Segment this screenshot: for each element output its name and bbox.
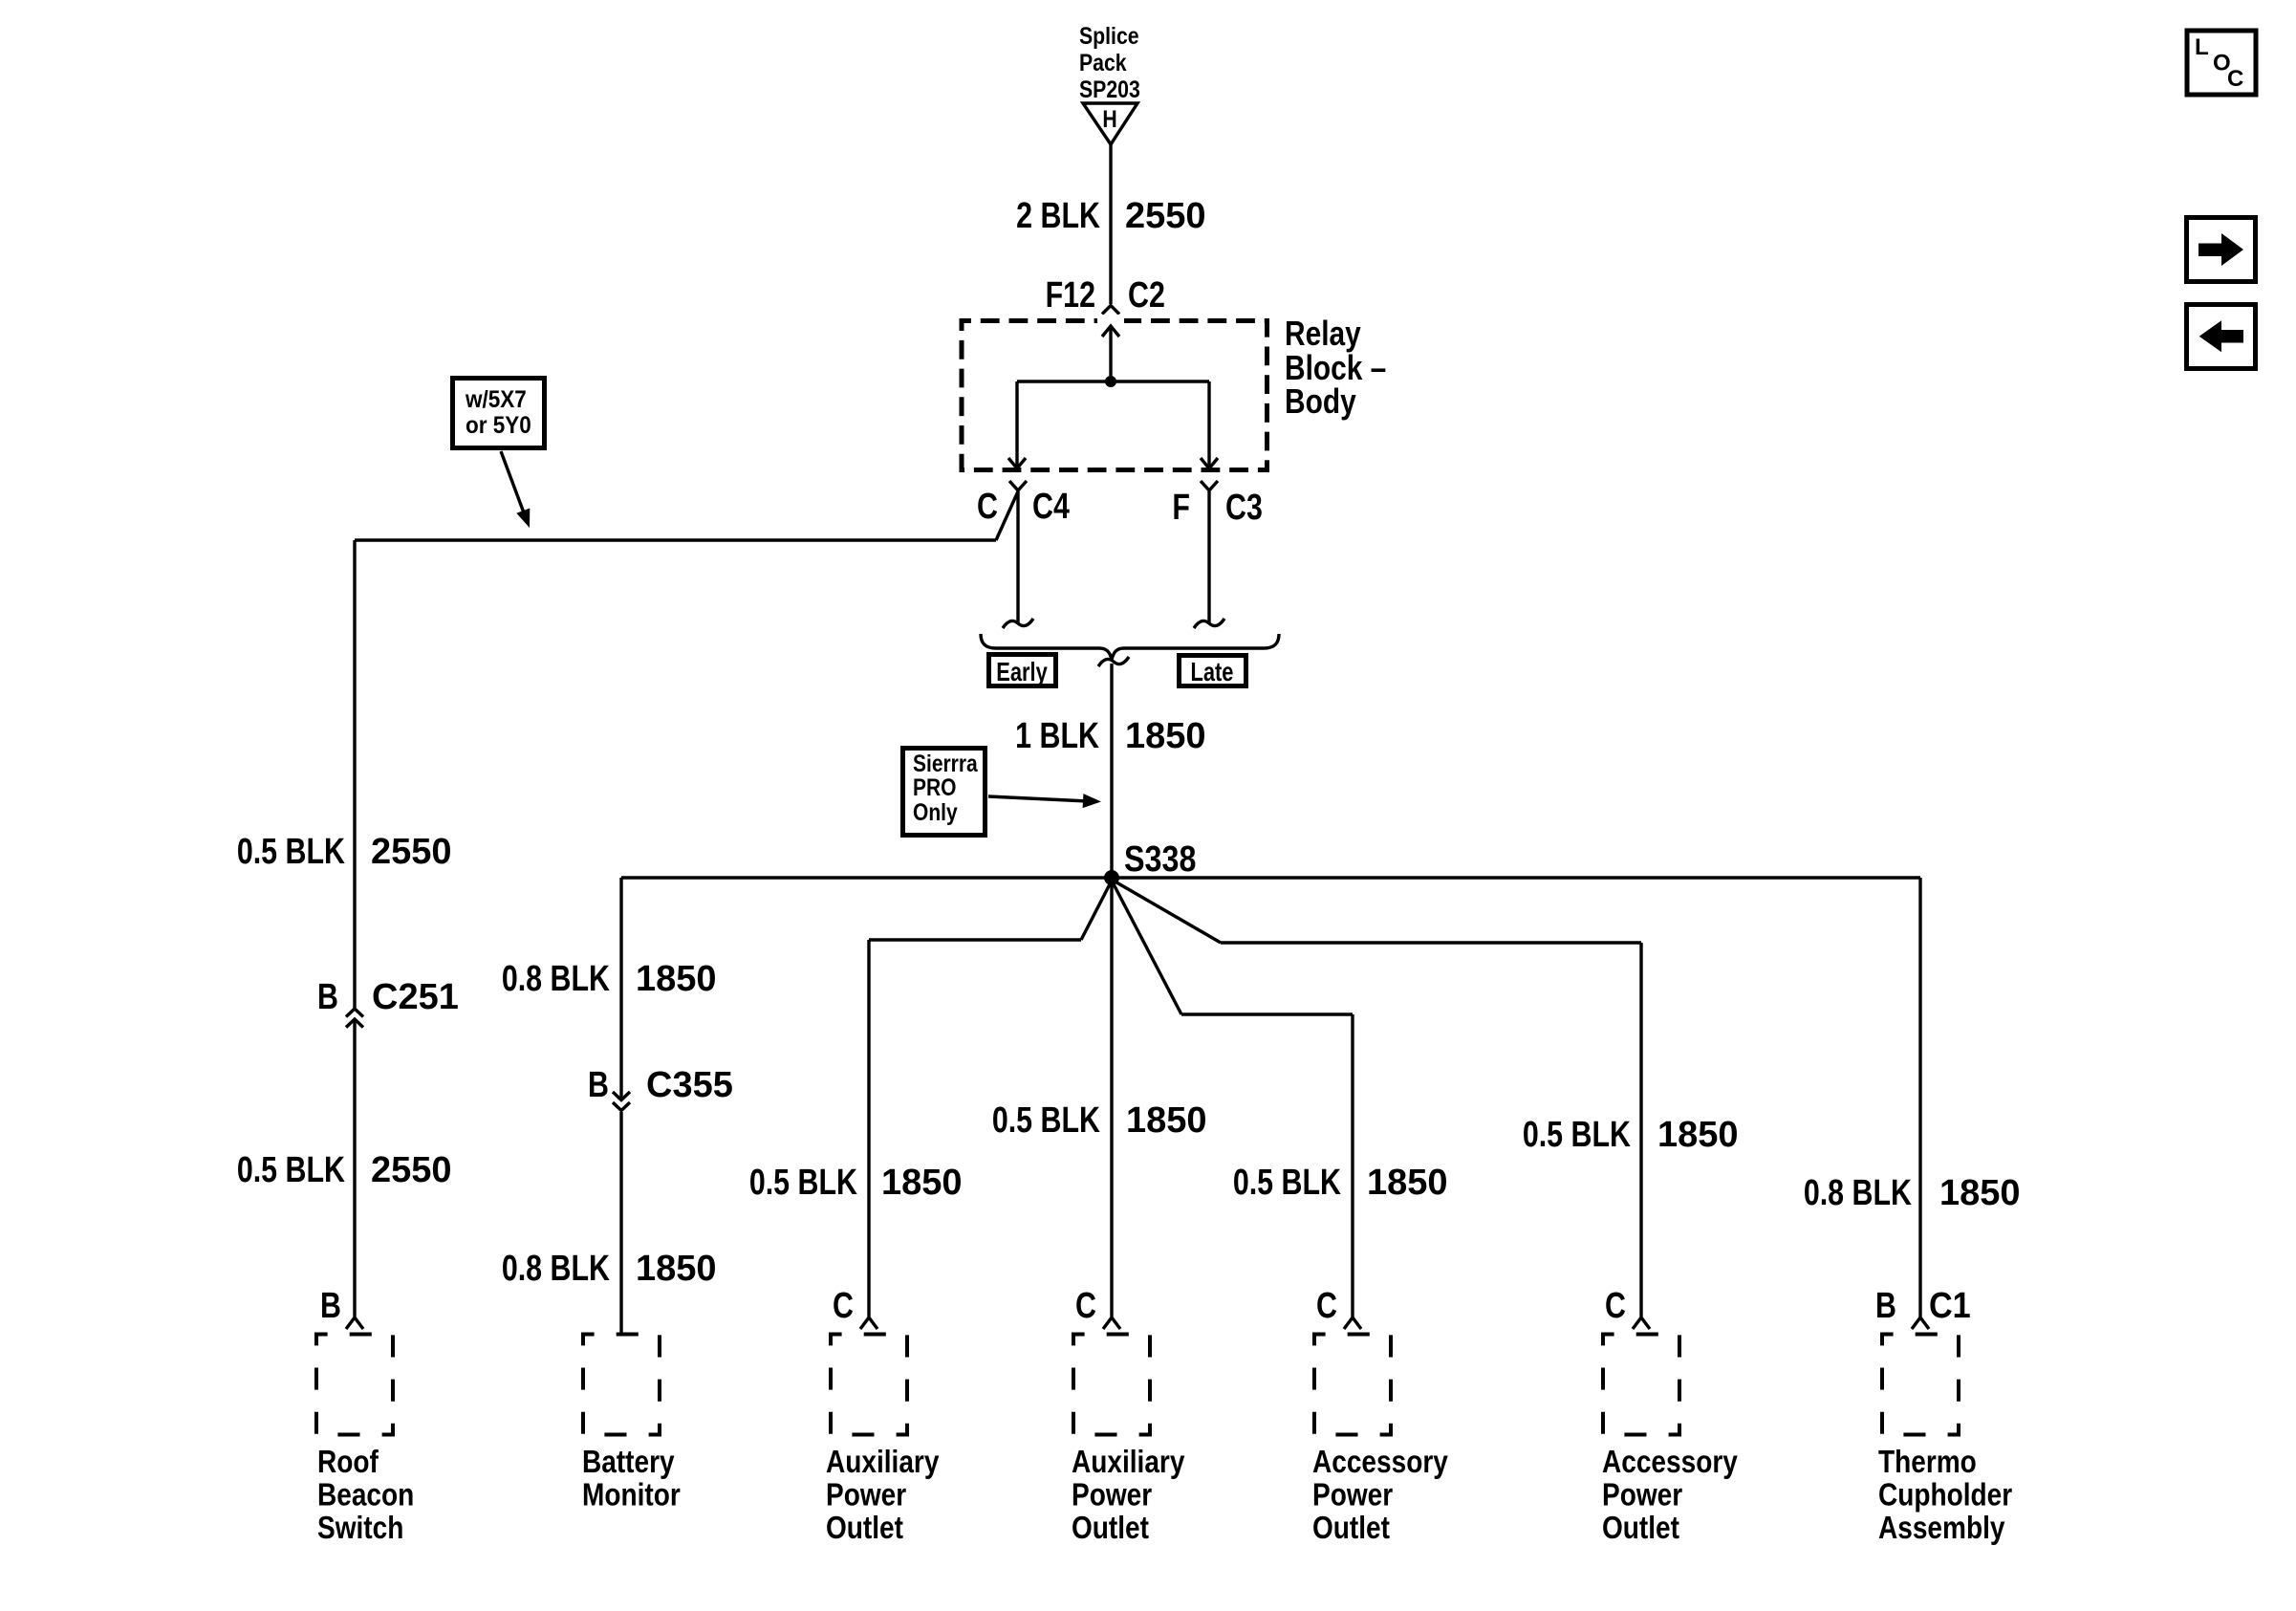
wire relay internal horizontal <box>1017 380 1209 382</box>
svg-text:0.8 BLK: 0.8 BLK <box>1804 1173 1912 1213</box>
svg-text:Power: Power <box>826 1477 906 1513</box>
svg-text:0.5 BLK: 0.5 BLK <box>1523 1115 1631 1155</box>
arrow from Sierrra box <box>988 794 1101 808</box>
auxiliary power outlet 2 label <box>1072 1445 1184 1546</box>
svg-text:2550: 2550 <box>371 832 452 872</box>
connector B roof beacon <box>320 1286 363 1329</box>
auxiliary power outlet 1 label <box>826 1445 939 1546</box>
break symbol below brace <box>1098 657 1129 666</box>
svg-text:Relay: Relay <box>1285 315 1361 353</box>
svg-text:C: C <box>2227 66 2243 92</box>
svg-text:w/5X7: w/5X7 <box>465 386 527 413</box>
svg-text:Body: Body <box>1285 382 1356 421</box>
svg-text:1850: 1850 <box>1367 1163 1448 1203</box>
connector C aux1 <box>833 1286 877 1329</box>
svg-text:2550: 2550 <box>371 1150 452 1190</box>
accessory power outlet 2 label <box>1602 1445 1738 1546</box>
label 2 BLK 2550 <box>1016 196 1205 236</box>
label 0.8 BLK 1850 upper <box>502 959 717 999</box>
svg-text:1850: 1850 <box>1126 1100 1207 1141</box>
svg-text:Only: Only <box>913 798 958 825</box>
battery monitor label <box>582 1445 681 1513</box>
svg-text:C4: C4 <box>1032 487 1070 527</box>
wire battery branch upper 0.8 BLK 1850 <box>619 878 622 1098</box>
svg-text:C1: C1 <box>1929 1284 1971 1325</box>
svg-text:B: B <box>1875 1286 1896 1326</box>
svg-text:Thermo: Thermo <box>1878 1445 1977 1480</box>
svg-text:C355: C355 <box>646 1065 733 1105</box>
svg-text:1850: 1850 <box>636 959 717 999</box>
svg-text:1850: 1850 <box>1939 1173 2021 1213</box>
connector C acc1 <box>1316 1286 1361 1329</box>
roof beacon switch box <box>316 1335 393 1435</box>
svg-text:Outlet: Outlet <box>1602 1511 1679 1546</box>
svg-text:0.5 BLK: 0.5 BLK <box>749 1163 857 1203</box>
svg-text:0.5 BLK: 0.5 BLK <box>237 1150 345 1190</box>
svg-text:C: C <box>833 1286 854 1326</box>
Early box <box>989 655 1056 687</box>
svg-text:Outlet: Outlet <box>826 1511 903 1546</box>
wire aux power outlet 1 branch <box>869 881 1112 1317</box>
svg-text:H: H <box>1102 105 1116 132</box>
relay block body dashed box <box>962 315 1267 470</box>
svg-text:Battery: Battery <box>582 1445 675 1480</box>
label 0.5 BLK 1850 acc1 <box>1233 1163 1448 1203</box>
splice S338 junction <box>1104 870 1119 885</box>
wire to roof beacon branch (horizontal + diagonal) <box>355 491 1018 540</box>
svg-text:0.5 BLK: 0.5 BLK <box>237 832 345 872</box>
label 0.5 BLK 1850 acc2 <box>1523 1115 1739 1155</box>
svg-text:C: C <box>977 487 998 527</box>
wire trunk 1 BLK 1850 <box>1110 664 1113 878</box>
arrow right icon <box>2187 218 2256 282</box>
svg-text:L: L <box>2195 34 2209 60</box>
svg-text:Early: Early <box>996 657 1047 686</box>
svg-text:1850: 1850 <box>636 1249 717 1289</box>
svg-text:2 BLK: 2 BLK <box>1016 196 1100 236</box>
svg-text:Switch: Switch <box>317 1511 403 1546</box>
connector C355 pin B <box>588 1065 733 1111</box>
svg-text:Power: Power <box>1312 1477 1393 1513</box>
svg-text:0.5 BLK: 0.5 BLK <box>992 1100 1100 1141</box>
svg-text:1850: 1850 <box>881 1163 963 1203</box>
svg-text:1 BLK: 1 BLK <box>1015 716 1099 756</box>
label 1 BLK 1850 <box>1015 716 1205 756</box>
wire roof beacon upper 0.5 BLK 2550 <box>353 540 356 1008</box>
wire aux power outlet 2 (trunk lower) <box>1110 878 1113 1317</box>
wire accessory power outlet 1 branch <box>1112 881 1353 1317</box>
svg-text:S338: S338 <box>1124 839 1196 880</box>
svg-text:0.8 BLK: 0.8 BLK <box>502 959 610 999</box>
accessory power outlet 2 box <box>1603 1335 1679 1435</box>
wire battery branch lower 0.8 BLK 1850 <box>619 1112 622 1334</box>
svg-text:C2: C2 <box>1128 275 1165 316</box>
label 0.5 BLK 1850 aux1 <box>749 1163 963 1203</box>
svg-text:Power: Power <box>1602 1477 1682 1513</box>
svg-text:C: C <box>1605 1286 1626 1326</box>
svg-text:Outlet: Outlet <box>1312 1511 1390 1546</box>
svg-text:Pack: Pack <box>1079 49 1127 76</box>
svg-text:Splice: Splice <box>1079 22 1139 49</box>
thermo cupholder assembly label <box>1878 1445 2012 1546</box>
wire main S338 horizontal <box>621 876 1920 879</box>
svg-text:0.5 BLK: 0.5 BLK <box>1233 1163 1341 1203</box>
svg-text:Accessory: Accessory <box>1602 1445 1738 1480</box>
svg-text:1850: 1850 <box>1125 716 1206 756</box>
label 0.5 BLK 1850 aux2 <box>992 1100 1207 1141</box>
svg-text:Outlet: Outlet <box>1072 1511 1149 1546</box>
svg-text:Sierrra: Sierrra <box>913 750 978 776</box>
svg-text:1850: 1850 <box>1657 1115 1739 1155</box>
svg-text:SP203: SP203 <box>1079 76 1140 102</box>
wire into relay with up arrow <box>1102 326 1119 381</box>
wire relay right leg with down arrow <box>1201 381 1218 468</box>
connector C4 pin C <box>977 481 1070 527</box>
relay block label <box>1285 315 1386 421</box>
connector C aux2 <box>1075 1286 1120 1329</box>
wire accessory power outlet 2 branch <box>1112 880 1641 1317</box>
svg-text:B: B <box>317 977 338 1017</box>
svg-text:Auxiliary: Auxiliary <box>826 1445 939 1480</box>
connector C3 pin F <box>1172 481 1262 528</box>
svg-text:Cupholder: Cupholder <box>1878 1477 2012 1513</box>
label 0.8 BLK 1850 thermo <box>1804 1173 2021 1213</box>
arrow left icon <box>2187 305 2256 369</box>
Late box <box>1180 656 1246 687</box>
wire 2 BLK 2550 <box>1109 144 1112 304</box>
splice pack symbol H (triangle) <box>1083 103 1137 144</box>
note box w/5X7 or 5Y0 <box>453 379 545 448</box>
svg-text:0.8 BLK: 0.8 BLK <box>502 1249 610 1289</box>
svg-text:Accessory: Accessory <box>1312 1445 1448 1480</box>
svg-text:Assembly: Assembly <box>1878 1511 2004 1546</box>
brace early/late <box>981 634 1279 660</box>
svg-text:C: C <box>1316 1286 1337 1326</box>
accessory power outlet 1 box <box>1314 1335 1391 1435</box>
note box Sierrra PRO Only <box>903 749 986 836</box>
svg-text:B: B <box>588 1065 609 1105</box>
connector C acc2 <box>1605 1286 1650 1329</box>
thermo cupholder assembly box <box>1882 1335 1959 1435</box>
svg-text:C251: C251 <box>372 977 459 1017</box>
splice pack SP203 label <box>1079 22 1140 102</box>
junction in relay block <box>1105 376 1116 387</box>
accessory power outlet 1 label <box>1312 1445 1448 1546</box>
svg-text:Late: Late <box>1191 657 1234 686</box>
svg-text:PRO: PRO <box>913 773 956 800</box>
wire C4 stem with break <box>1003 491 1033 628</box>
roof beacon switch label <box>317 1445 414 1546</box>
svg-text:or 5Y0: or 5Y0 <box>466 412 531 439</box>
wire roof beacon lower 0.5 BLK 2550 <box>353 1019 356 1317</box>
svg-text:Auxiliary: Auxiliary <box>1072 1445 1184 1480</box>
svg-text:2550: 2550 <box>1125 196 1206 236</box>
label 0.5 BLK 2550 lower <box>237 1150 452 1190</box>
connector C1 pin B thermo <box>1875 1284 1971 1329</box>
svg-text:C: C <box>1075 1286 1096 1326</box>
label 0.5 BLK 2550 upper <box>237 832 452 872</box>
wire relay left leg with down arrow <box>1008 381 1026 468</box>
battery monitor box <box>583 1335 660 1435</box>
arrow from w/5X7 box <box>501 451 530 528</box>
svg-text:Monitor: Monitor <box>582 1477 681 1513</box>
auxiliary power outlet 2 box <box>1073 1335 1150 1435</box>
wire C3 stem with break <box>1194 491 1224 628</box>
svg-text:Power: Power <box>1072 1477 1152 1513</box>
LOC icon <box>2187 31 2256 95</box>
svg-text:Beacon: Beacon <box>317 1477 414 1513</box>
auxiliary power outlet 1 box <box>831 1335 907 1435</box>
svg-text:F: F <box>1172 488 1190 528</box>
svg-text:F12: F12 <box>1046 275 1095 316</box>
svg-text:B: B <box>320 1286 341 1326</box>
connector C251 pin B <box>317 977 459 1028</box>
svg-text:C3: C3 <box>1225 488 1263 528</box>
wire thermo cupholder branch 0.8 BLK 1850 <box>1918 878 1921 1317</box>
label 0.8 BLK 1850 lower <box>502 1249 717 1289</box>
svg-text:Roof: Roof <box>317 1445 379 1480</box>
connector C2 pin F12 <box>1046 275 1165 316</box>
